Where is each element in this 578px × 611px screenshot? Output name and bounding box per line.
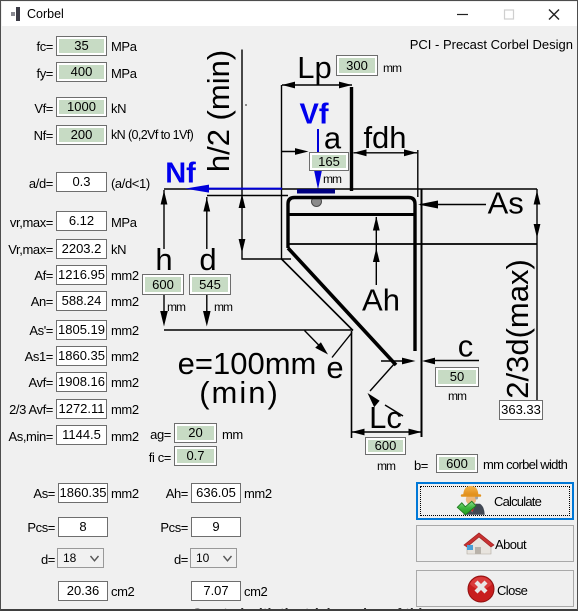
wire Lp dimension <box>282 82 352 89</box>
sloped reinforcement (thick) <box>288 248 396 365</box>
wire outer face line <box>417 150 419 197</box>
wire e leader <box>305 331 353 358</box>
anchor bar circle <box>312 197 322 207</box>
wire As leader <box>418 201 486 209</box>
wire d dimension line <box>203 197 211 327</box>
svg-text:a: a <box>324 121 342 156</box>
svg-text:Nf: Nf <box>165 158 196 190</box>
As reinforcement loop (thick) <box>288 198 415 352</box>
wire a dimension <box>282 148 309 155</box>
wire Lc left extension <box>351 331 353 438</box>
wire fdh dimension <box>354 149 418 156</box>
wire column left edge <box>281 85 283 259</box>
wire top surface line <box>164 188 537 190</box>
drawing value boxes <box>336 55 378 76</box>
svg-text:h/2 (min): h/2 (min) <box>201 50 236 172</box>
caption buttons <box>1 1 578 27</box>
tie <box>471 505 474 512</box>
green check <box>457 501 476 515</box>
svg-text:e=100mm: e=100mm <box>178 346 317 381</box>
svg-text:e: e <box>326 350 343 385</box>
svg-text:Vf: Vf <box>300 99 329 131</box>
As bar 2 (thick) <box>288 213 415 216</box>
svg-text:2/3d(max): 2/3d(max) <box>500 259 535 399</box>
svg-text:As: As <box>488 185 524 220</box>
app icon <box>16 7 20 21</box>
svg-text:c: c <box>458 329 474 364</box>
wire sloped outline <box>282 259 354 331</box>
svg-text:Ah: Ah <box>362 283 400 318</box>
wire 2/3d dimension line <box>534 189 541 400</box>
wire column right edge (thick) <box>350 87 353 191</box>
node d label <box>197 242 217 277</box>
svg-text:Lp: Lp <box>297 50 331 85</box>
svg-text:d: d <box>199 242 216 277</box>
wire Ah dimension arrows <box>373 217 380 286</box>
top right caption <box>363 37 573 52</box>
svg-text:h: h <box>155 242 172 277</box>
bearing plate <box>297 189 335 194</box>
wire Lc leader <box>368 363 404 416</box>
ag / fi c rows <box>101 427 171 442</box>
wire c dimension <box>381 358 479 365</box>
wire h dimension line <box>160 190 168 327</box>
wire bottom line <box>164 329 353 331</box>
hard hat <box>463 486 478 495</box>
wire h/2 dimension line <box>239 50 291 260</box>
shirt <box>469 504 476 513</box>
title bar <box>2 2 577 26</box>
wire Lc dimension <box>352 429 422 436</box>
head <box>466 494 476 505</box>
title text <box>27 7 64 21</box>
wire Nf arrow <box>185 185 282 193</box>
svg-text:(min): (min) <box>199 375 280 410</box>
node h label <box>153 242 175 277</box>
svg-text:Lc: Lc <box>369 400 402 435</box>
suit <box>464 504 485 515</box>
svg-text:fdh: fdh <box>363 120 406 155</box>
wire d-level line <box>207 195 288 197</box>
Ah bar line <box>288 243 537 245</box>
bottom watermark remnant <box>192 608 424 611</box>
wire Vf arrow <box>314 129 322 190</box>
